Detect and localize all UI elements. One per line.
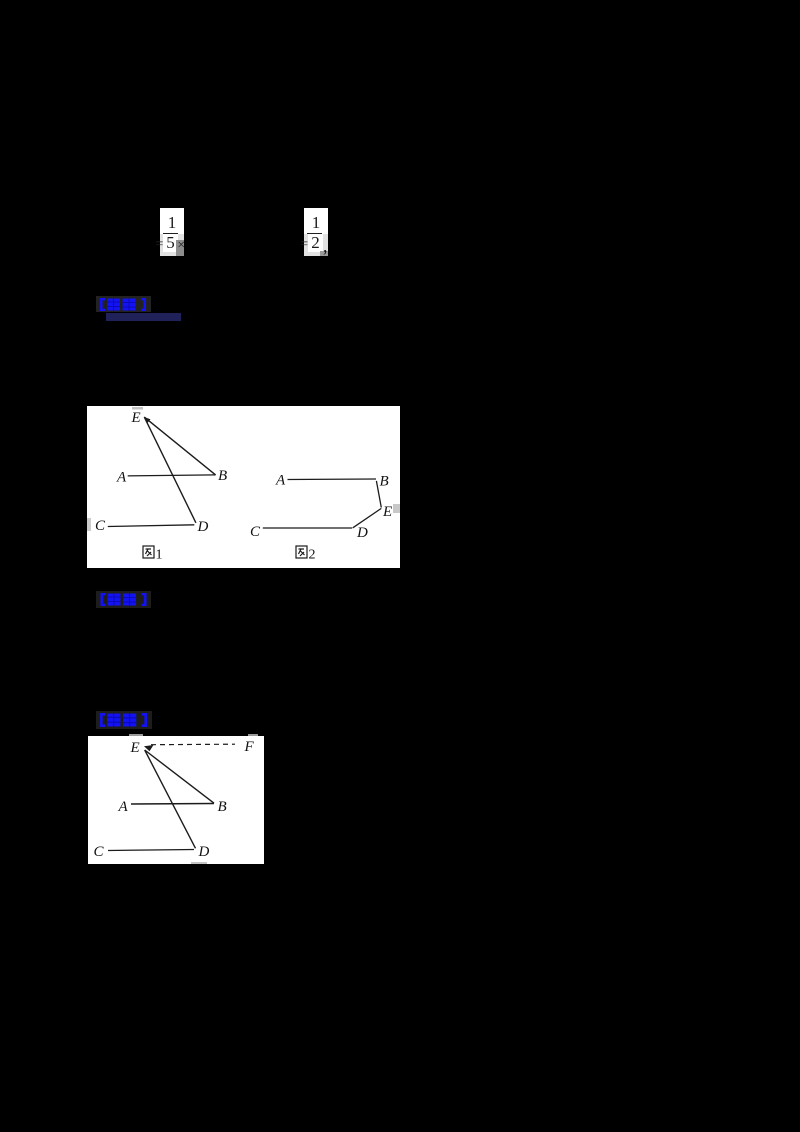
gray corner patch xyxy=(176,240,184,256)
fig1: line E to B xyxy=(144,417,215,475)
fig1: arrowhead at E xyxy=(144,417,150,423)
left bracket xyxy=(100,298,105,311)
fraction bar xyxy=(307,233,322,235)
glyph block 1 xyxy=(107,593,120,605)
fraction 1/5 equation fragment xyxy=(160,208,184,256)
svg-text:E: E xyxy=(131,410,141,426)
svg-text:B: B xyxy=(218,799,227,815)
figure box 1 xyxy=(87,406,400,568)
right bracket xyxy=(141,298,146,311)
svg-text:D: D xyxy=(356,525,368,541)
svg-text:C: C xyxy=(250,524,261,540)
figure box 2 xyxy=(88,736,264,864)
glyph block 2 xyxy=(123,299,136,311)
right bracket xyxy=(141,593,146,606)
svg-text:E: E xyxy=(130,740,140,756)
analysis label 1 blue text xyxy=(100,593,147,606)
analysis label 2 backing xyxy=(96,711,152,729)
gray smudge above E of figure 2 xyxy=(129,734,143,736)
answer label backing xyxy=(96,296,151,312)
fig1: line E to D xyxy=(144,417,196,523)
answer label blue text xyxy=(100,298,146,311)
numerator 1 xyxy=(304,214,328,231)
fig2: gray smudge left edge xyxy=(87,518,91,531)
lower gray area xyxy=(304,234,328,256)
fraction 1/2 equation fragment xyxy=(304,208,328,256)
glyph block 2 xyxy=(123,593,136,605)
left bracket xyxy=(100,593,105,606)
svg-text:D: D xyxy=(197,519,209,535)
glyph block 1 xyxy=(107,299,120,311)
svg-text:B: B xyxy=(380,474,389,490)
analysis label 1 backing xyxy=(96,591,151,608)
svg-text:1: 1 xyxy=(156,548,163,563)
line E to D xyxy=(145,750,196,848)
equals sign before 1/5 xyxy=(156,238,164,252)
fig2: line E to D xyxy=(353,508,382,527)
svg-text:2: 2 xyxy=(309,548,316,563)
glyph block 1 xyxy=(107,714,120,727)
svg-text:A: A xyxy=(275,473,286,489)
lower gray area xyxy=(160,234,184,256)
fig2: line B to E xyxy=(376,481,381,508)
fig2: line C to D xyxy=(263,527,352,529)
denominator 2 box xyxy=(308,234,323,252)
arrowhead at E on dashed line xyxy=(144,745,154,751)
gray smudge above E xyxy=(132,407,143,410)
right bracket xyxy=(142,713,147,727)
line E to B xyxy=(145,750,214,803)
fig1 caption tu glyph xyxy=(143,546,154,558)
denominator 5 box xyxy=(163,234,178,252)
svg-text:A: A xyxy=(116,470,127,486)
analysis label 2 blue text xyxy=(100,713,147,727)
fig2: line A to B xyxy=(288,478,377,481)
svg-text:E: E xyxy=(382,504,392,520)
gray smudge above F of figure 2 xyxy=(248,734,258,736)
glyph block 2 xyxy=(123,714,136,727)
svg-text:F: F xyxy=(244,739,255,755)
comma after 1/2 xyxy=(323,237,328,255)
equals sign before 1/2 xyxy=(300,238,308,252)
answer underline navy bar xyxy=(106,313,181,321)
fig2 caption tu glyph xyxy=(296,546,307,558)
fraction bar xyxy=(163,233,178,235)
line C to D xyxy=(108,850,194,851)
fig1: line C to D xyxy=(108,525,195,527)
gray corner patch xyxy=(320,251,328,256)
svg-text:B: B xyxy=(218,468,227,484)
svg-text:D: D xyxy=(198,844,210,860)
left bracket xyxy=(100,713,105,727)
svg-text:C: C xyxy=(94,844,105,860)
line A to B xyxy=(131,803,214,806)
fig1: line A to B xyxy=(128,475,216,476)
numerator 1 xyxy=(160,214,184,231)
times sign after 1/5 xyxy=(177,239,185,253)
svg-text:C: C xyxy=(95,518,106,534)
gray smudge bottom near D xyxy=(191,862,207,864)
svg-text:A: A xyxy=(118,799,129,815)
dashed line E to F xyxy=(151,743,235,746)
fig2: gray smudge right of E xyxy=(393,504,400,513)
